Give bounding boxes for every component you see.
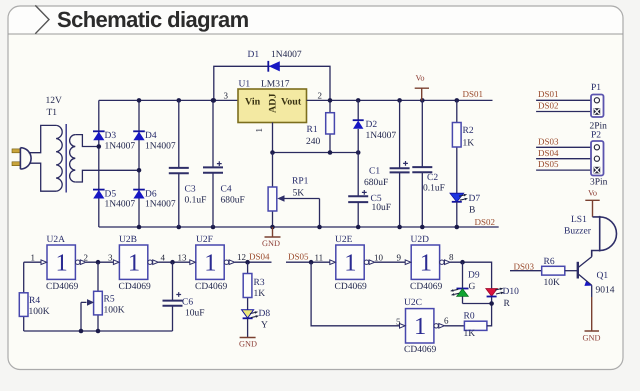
svg-text:DS04: DS04 <box>538 148 559 158</box>
junction RP1 wiper bottom <box>317 225 322 230</box>
svg-text:9: 9 <box>397 253 402 263</box>
title chevron <box>35 5 49 33</box>
potentiometer RP1 <box>268 153 319 228</box>
inverter U2B <box>113 245 158 279</box>
junction top bus C4 <box>211 98 216 103</box>
svg-text:R: R <box>504 299 511 309</box>
junction Vout C1 <box>397 98 402 103</box>
junction bottom bus C4 <box>211 225 216 230</box>
junction top bus C3 <box>177 98 182 103</box>
inverter U2C <box>400 309 445 343</box>
svg-text:LS1: LS1 <box>571 215 587 225</box>
diode D3 <box>93 131 105 140</box>
svg-text:CD4069: CD4069 <box>46 282 78 292</box>
connector P2 <box>591 141 604 176</box>
wire DS05 down to U2C <box>311 262 400 326</box>
regulator U1 LM317 <box>238 89 307 123</box>
connector P1 <box>591 95 604 118</box>
junction bottom D7 <box>455 225 460 230</box>
svg-text:DS03: DS03 <box>514 262 535 272</box>
resistor R2 <box>452 100 461 193</box>
svg-text:0.1uF: 0.1uF <box>423 184 445 194</box>
svg-text:1K: 1K <box>464 329 476 339</box>
svg-text:Vout: Vout <box>281 97 302 108</box>
svg-text:680uF: 680uF <box>364 178 388 188</box>
svg-text:Y: Y <box>261 321 268 331</box>
wire U2D out to LEDs <box>450 262 492 288</box>
svg-text:1N4007: 1N4007 <box>145 200 176 210</box>
svg-text:U2D: U2D <box>411 235 430 245</box>
svg-text:Buzzer: Buzzer <box>564 227 592 237</box>
svg-text:CD4069: CD4069 <box>404 345 436 355</box>
junction C6 top <box>170 260 175 265</box>
svg-text:U2B: U2B <box>119 235 137 245</box>
LED D8 <box>242 310 259 338</box>
wire secondary top to node <box>75 135 99 147</box>
svg-text:12V: 12V <box>46 96 63 106</box>
svg-text:DS04: DS04 <box>249 252 270 262</box>
svg-text:1: 1 <box>254 128 264 133</box>
svg-text:10K: 10K <box>544 278 561 288</box>
svg-text:D2: D2 <box>366 120 378 130</box>
capacitor C2 <box>412 100 432 227</box>
svg-text:2: 2 <box>318 91 323 101</box>
junction bottom C1 <box>397 225 402 230</box>
svg-text:1N4007: 1N4007 <box>105 142 136 152</box>
svg-text:LM317: LM317 <box>261 80 290 90</box>
svg-text:12: 12 <box>237 252 246 262</box>
wire DS03 to R6 <box>510 270 542 272</box>
svg-text:D4: D4 <box>145 131 157 141</box>
junction D10 R0 <box>489 301 494 306</box>
junction Vout Vo <box>420 98 425 103</box>
svg-text:CD4069: CD4069 <box>195 282 227 292</box>
LED D7 <box>450 193 468 227</box>
title band <box>9 7 622 34</box>
wire P2 pin1 <box>536 146 591 148</box>
junction R5 bottom <box>96 329 101 334</box>
inverter U2F <box>190 245 235 279</box>
wire plug bottom to primary <box>30 163 57 191</box>
svg-text:DS02: DS02 <box>538 101 559 111</box>
wire secondary bottom to node <box>75 170 139 182</box>
ground Q1 <box>583 297 601 343</box>
junction bottom C2 <box>420 225 425 230</box>
wire top bus <box>99 99 238 101</box>
svg-text:1N4007: 1N4007 <box>105 200 136 210</box>
resistor R1 <box>326 100 335 152</box>
wire P2 pin2 <box>536 158 591 160</box>
junction R5 wiper <box>79 329 84 334</box>
svg-text:DS02: DS02 <box>475 217 496 227</box>
svg-text:D3: D3 <box>105 131 117 141</box>
ground D8 <box>239 338 257 349</box>
svg-text:CD4069: CD4069 <box>119 282 151 292</box>
wire left column D3/D5 <box>98 100 100 227</box>
svg-text:D6: D6 <box>145 190 157 200</box>
junction Vout D2 <box>356 98 361 103</box>
svg-text:1N4007: 1N4007 <box>366 131 397 141</box>
svg-text:2: 2 <box>84 253 89 263</box>
svg-text:1: 1 <box>204 249 216 276</box>
svg-text:DS01: DS01 <box>538 89 559 99</box>
svg-text:C2: C2 <box>427 173 438 183</box>
svg-text:C4: C4 <box>221 185 232 195</box>
svg-text:RP1: RP1 <box>292 177 309 187</box>
capacitor C5 <box>348 153 368 228</box>
wire D4/D6 column <box>138 100 140 227</box>
wire Vout rail DS01 <box>307 99 493 101</box>
svg-text:1: 1 <box>128 249 140 276</box>
capacitor C3 <box>169 100 189 227</box>
wire ADJ rail <box>273 152 359 154</box>
terminal Vo main <box>415 74 429 101</box>
svg-text:R6: R6 <box>544 257 555 267</box>
LED D10 <box>486 288 504 304</box>
junction R5 top <box>96 260 101 265</box>
svg-text:1N4007: 1N4007 <box>271 50 302 60</box>
svg-text:100K: 100K <box>104 306 125 316</box>
svg-text:U2E: U2E <box>335 235 353 245</box>
svg-text:ADJ: ADJ <box>268 94 279 113</box>
AC plug <box>12 148 31 169</box>
svg-text:Schematic diagram: Schematic diagram <box>57 7 249 32</box>
svg-text:240: 240 <box>306 137 321 147</box>
svg-text:9014: 9014 <box>596 286 615 296</box>
junction D1 left <box>212 98 217 103</box>
svg-text:T1: T1 <box>47 108 58 118</box>
junction RP1 bottom <box>270 225 275 230</box>
junction bottom bus C3 <box>177 225 182 230</box>
junction ADJ RP1 <box>270 150 275 155</box>
svg-text:3: 3 <box>108 253 113 263</box>
junction top bus D4 <box>137 98 142 103</box>
svg-text:CD4069: CD4069 <box>410 282 442 292</box>
svg-text:0.1uF: 0.1uF <box>185 196 207 206</box>
svg-text:D5: D5 <box>105 190 117 200</box>
svg-text:10uF: 10uF <box>372 203 392 213</box>
inverter U2E <box>330 245 375 279</box>
svg-text:DS05: DS05 <box>538 159 559 169</box>
junction DS05 <box>309 260 314 265</box>
inverter U2D <box>405 245 450 279</box>
svg-text:R1: R1 <box>307 125 318 135</box>
svg-text:1: 1 <box>420 249 432 276</box>
terminal Vo buzzer <box>585 189 599 217</box>
resistor R5 <box>81 262 102 331</box>
ground RP1 <box>262 227 281 248</box>
diode D1 <box>268 61 280 72</box>
svg-text:C1: C1 <box>369 167 380 177</box>
svg-text:6: 6 <box>444 316 449 326</box>
diode D6 <box>133 190 145 199</box>
svg-text:10uF: 10uF <box>185 309 205 319</box>
wire bottom bus <box>99 226 499 228</box>
svg-text:D8: D8 <box>259 309 271 319</box>
wire U1 pin1 ADJ <box>272 123 274 153</box>
svg-text:11: 11 <box>315 253 324 263</box>
svg-text:U2A: U2A <box>47 235 66 245</box>
svg-text:Vin: Vin <box>245 97 261 108</box>
svg-text:GND: GND <box>239 340 257 349</box>
junction bottom bus D6 <box>137 225 142 230</box>
svg-text:U2C: U2C <box>404 298 422 308</box>
svg-text:DS03: DS03 <box>538 137 559 147</box>
svg-text:B: B <box>469 206 475 216</box>
svg-text:100K: 100K <box>29 307 50 317</box>
buzzer LS1 <box>592 216 617 257</box>
capacitor C1 <box>390 100 410 227</box>
junction ADJ R1 <box>328 150 333 155</box>
wire P2 pin3 <box>536 169 591 171</box>
svg-text:P1: P1 <box>591 83 601 93</box>
svg-text:C3: C3 <box>185 185 196 195</box>
svg-text:13: 13 <box>178 253 188 263</box>
svg-text:CD4069: CD4069 <box>335 282 367 292</box>
svg-text:10: 10 <box>374 253 384 263</box>
inverter U2A <box>41 245 86 279</box>
svg-text:Vo: Vo <box>416 74 425 83</box>
capacitor C4 <box>203 100 223 227</box>
junction Vout R1 <box>328 98 333 103</box>
resistor R3 <box>243 262 252 309</box>
wire U2C out to R0 <box>444 325 464 327</box>
svg-text:8: 8 <box>449 252 454 262</box>
svg-text:DS01: DS01 <box>463 89 484 99</box>
svg-text:680uF: 680uF <box>221 196 245 206</box>
transistor Q1 <box>578 251 592 298</box>
svg-text:U2F: U2F <box>196 235 213 245</box>
svg-text:C6: C6 <box>182 298 193 308</box>
svg-text:1: 1 <box>414 313 426 340</box>
svg-text:GND: GND <box>583 334 601 343</box>
wire plug top to primary <box>29 125 57 152</box>
transformer T1 <box>56 124 75 193</box>
junction R3 top <box>245 260 250 265</box>
resistor R6 <box>542 266 577 275</box>
capacitor C6 <box>163 262 183 331</box>
svg-text:1: 1 <box>56 249 68 276</box>
svg-text:1: 1 <box>31 253 36 263</box>
svg-text:R4: R4 <box>29 296 40 306</box>
wire D1 branch <box>214 66 330 100</box>
svg-text:5: 5 <box>396 317 401 327</box>
svg-text:1K: 1K <box>463 139 475 149</box>
svg-text:P2: P2 <box>591 131 601 141</box>
svg-text:GND: GND <box>262 239 280 248</box>
junction ADJ D2 <box>356 150 361 155</box>
svg-text:DS05: DS05 <box>288 252 309 262</box>
svg-text:R0: R0 <box>464 312 475 322</box>
wire U2A out to U2B <box>86 261 114 263</box>
svg-text:3: 3 <box>224 91 229 101</box>
junction secondary bottom <box>137 168 142 173</box>
wire U2F out DS04 <box>235 261 272 263</box>
svg-text:D1: D1 <box>248 50 260 60</box>
svg-text:D10: D10 <box>503 287 520 297</box>
svg-text:D9: D9 <box>468 271 480 281</box>
svg-text:R5: R5 <box>104 295 115 305</box>
junction bottom C5 <box>356 225 361 230</box>
svg-text:4: 4 <box>161 253 166 263</box>
junction Vout R2 <box>455 98 460 103</box>
svg-text:Vo: Vo <box>588 189 597 198</box>
wire P1 pin1 <box>536 99 591 101</box>
svg-text:R3: R3 <box>254 278 265 288</box>
svg-text:D7: D7 <box>469 194 481 204</box>
wire U2B out to U2F <box>158 261 190 263</box>
junction secondary top <box>97 144 102 149</box>
title separator <box>8 33 623 35</box>
svg-text:1K: 1K <box>254 289 266 299</box>
resistor R4 <box>19 262 28 331</box>
diode D4 <box>133 131 145 140</box>
wire feedback rail <box>24 330 173 332</box>
svg-text:3Pin: 3Pin <box>590 178 608 188</box>
svg-text:G: G <box>469 282 476 292</box>
diode D5 <box>93 190 105 199</box>
wire DS05 to U2E <box>286 261 330 263</box>
LED D9 <box>450 262 468 303</box>
wire U2E out to U2D <box>375 261 406 263</box>
svg-text:1: 1 <box>344 249 356 276</box>
wire P1 pin2 <box>536 111 591 113</box>
svg-text:5K: 5K <box>293 189 305 199</box>
resistor R0 <box>464 304 491 331</box>
svg-text:U1: U1 <box>239 80 251 90</box>
svg-text:R2: R2 <box>463 126 474 136</box>
diode D2 <box>353 100 364 152</box>
wire U2A input <box>24 261 42 263</box>
svg-text:Q1: Q1 <box>597 271 609 281</box>
wire D9 D10 bottom <box>463 303 492 305</box>
junction D9 top <box>460 260 465 265</box>
svg-text:1N4007: 1N4007 <box>145 142 176 152</box>
